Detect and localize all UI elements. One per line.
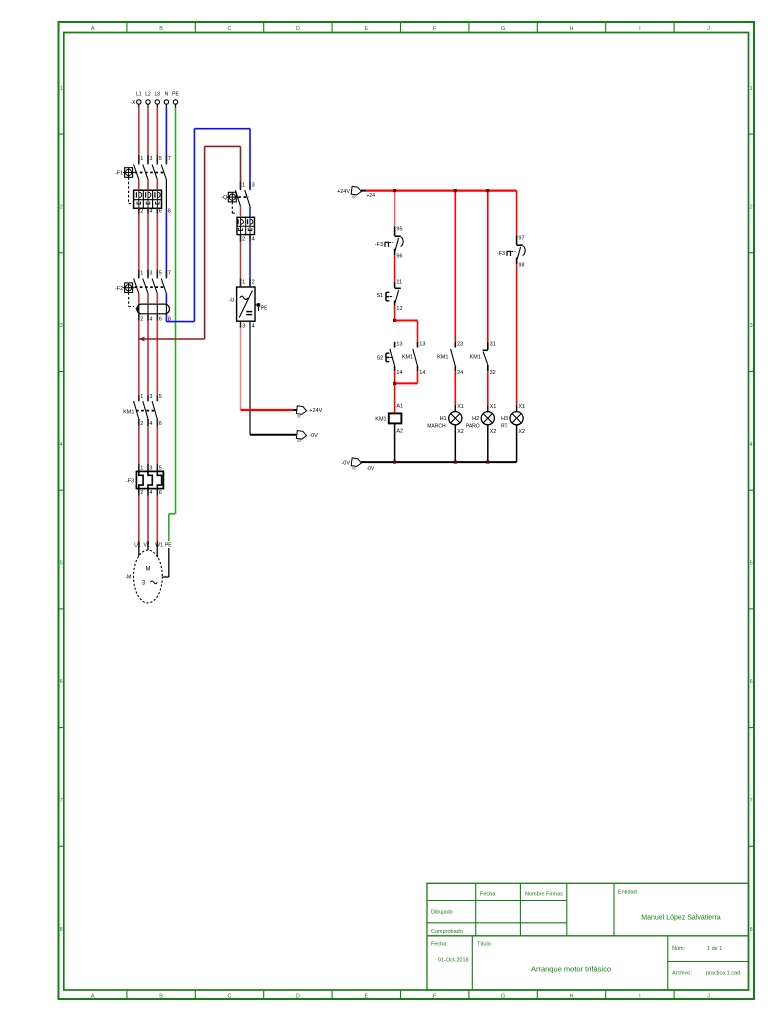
svg-text:13: 13 [419,342,425,348]
svg-text:01-Oct-2018: 01-Oct-2018 [438,958,469,964]
svg-text:Manuel López Salvatierra: Manuel López Salvatierra [641,915,720,922]
svg-text:G: G [501,26,505,32]
svg-text:1: 1 [242,182,245,188]
svg-text:H2: H2 [472,416,479,422]
svg-text:Archivo:: Archivo: [672,971,692,977]
svg-text:X1: X1 [457,404,464,410]
svg-text:Dibujado: Dibujado [431,910,453,916]
svg-text:-U: -U [229,298,235,304]
svg-text:KM1: KM1 [437,354,448,360]
svg-text:KM1: KM1 [402,354,413,360]
svg-text:4: 4 [149,490,152,496]
svg-text:2: 2 [140,208,143,214]
svg-text:U1: U1 [134,543,141,549]
svg-text:3: 3 [149,156,152,162]
svg-text:12: 12 [396,306,402,312]
svg-text:5: 5 [159,156,162,162]
svg-text:98: 98 [518,263,524,269]
svg-text:3: 3 [60,323,63,329]
svg-text:X2: X2 [490,429,497,435]
svg-text:-Q: -Q [221,195,228,201]
svg-text:A: A [91,26,95,32]
svg-text:32: 32 [490,370,496,376]
svg-text:4: 4 [252,237,255,243]
svg-text:-F2: -F2 [115,286,123,292]
svg-text:5: 5 [159,465,162,471]
svg-text:B: B [159,26,163,32]
svg-text:6: 6 [159,316,162,322]
svg-text:-M: -M [125,575,132,581]
svg-text:H: H [570,993,574,999]
svg-text:11: 11 [396,280,402,286]
svg-text:V1: V1 [143,543,149,549]
svg-text:7: 7 [60,798,63,804]
svg-text:H3: H3 [501,416,508,422]
svg-text:N: N [165,92,169,98]
svg-text:7: 7 [168,271,171,277]
svg-text:H: H [570,26,574,32]
svg-text:S2: S2 [376,356,383,362]
svg-text:95: 95 [396,227,402,233]
svg-text:2: 2 [252,279,255,285]
svg-text:3: 3 [242,323,245,329]
svg-text:KM1: KM1 [123,410,134,416]
svg-text:7: 7 [168,156,171,162]
svg-text:1 de 1: 1 de 1 [707,946,722,952]
svg-text:1: 1 [140,394,143,400]
svg-text:31: 31 [490,342,496,348]
svg-text:1: 1 [60,86,63,92]
svg-text:D: D [296,993,300,999]
svg-text:-0V: -0V [367,466,375,472]
svg-text:6: 6 [159,208,162,214]
svg-text:4: 4 [149,316,152,322]
svg-text:3: 3 [149,394,152,400]
svg-text:4: 4 [60,442,63,448]
svg-text:L2: L2 [145,92,151,98]
svg-text:-F3: -F3 [126,479,134,485]
svg-text:PARO: PARO [466,424,480,430]
svg-text:2: 2 [140,316,143,322]
svg-text:X1: X1 [490,404,497,410]
svg-text:5: 5 [60,561,63,567]
svg-text:E: E [364,26,368,32]
svg-text:1: 1 [140,156,143,162]
svg-text:2: 2 [750,205,753,211]
svg-text:8: 8 [60,927,63,933]
svg-text:02: 02 [297,414,301,418]
svg-text:7: 7 [750,798,753,804]
svg-text:3: 3 [149,465,152,471]
svg-text:6: 6 [159,421,162,427]
svg-text:H1: H1 [440,416,447,422]
svg-text:6: 6 [60,679,63,685]
svg-text:2: 2 [140,490,143,496]
svg-text:J: J [707,26,710,32]
svg-text:6: 6 [750,679,753,685]
svg-text:S1: S1 [376,293,383,299]
svg-text:A2: A2 [396,429,403,435]
svg-text:-0V: -0V [341,461,350,467]
svg-text:Comprobado: Comprobado [431,929,463,935]
svg-text:L3: L3 [155,92,161,98]
svg-text:4: 4 [149,208,152,214]
svg-text:+24: +24 [367,193,376,199]
svg-text:1: 1 [242,279,245,285]
svg-text:5: 5 [159,271,162,277]
svg-text:24: 24 [457,370,463,376]
svg-text:-0V: -0V [309,433,318,439]
svg-text:3: 3 [149,271,152,277]
svg-text:-F3: -F3 [497,251,505,257]
svg-text:96: 96 [396,254,402,260]
svg-text:A1: A1 [396,403,403,409]
svg-text:A: A [91,993,95,999]
svg-text:C: C [228,26,232,32]
svg-text:5: 5 [750,561,753,567]
svg-text:-F3: -F3 [375,242,383,248]
svg-text:02: 02 [297,439,301,443]
svg-text:Núm:: Núm: [672,946,686,952]
svg-text:X1: X1 [518,404,525,410]
svg-text:3: 3 [252,182,255,188]
svg-text:1: 1 [140,271,143,277]
svg-text:Nombre Firmas: Nombre Firmas [525,892,563,898]
svg-text:4: 4 [252,323,255,329]
svg-text:J: J [707,993,710,999]
svg-text:8: 8 [750,927,753,933]
svg-text:02: 02 [352,195,356,199]
svg-text:D: D [296,26,300,32]
svg-text:MARCH: MARCH [427,424,446,430]
svg-text:PE: PE [172,92,179,98]
svg-text:L1: L1 [136,92,142,98]
svg-text:C: C [228,993,232,999]
svg-text:1: 1 [140,465,143,471]
svg-text:+24V: +24V [309,408,322,414]
svg-text:8: 8 [168,208,171,214]
svg-text:X2: X2 [457,429,464,435]
svg-text:Entidad: Entidad [618,890,637,896]
svg-text:Título: Título [477,942,491,948]
svg-text:14: 14 [396,370,402,376]
svg-text:6: 6 [159,490,162,496]
svg-text:-X: -X [130,100,136,106]
svg-text:Arranque motor trifásico: Arranque motor trifásico [531,965,611,974]
svg-text:Fecha: Fecha [480,892,496,898]
svg-text:4: 4 [149,421,152,427]
svg-text:3: 3 [750,323,753,329]
svg-text:-F1: -F1 [115,171,123,177]
svg-text:KM1: KM1 [470,354,481,360]
svg-text:RT: RT [501,424,508,430]
svg-text:KM1: KM1 [375,417,386,423]
svg-text:5: 5 [159,394,162,400]
svg-text:W1: W1 [155,543,163,549]
svg-text:1: 1 [750,86,753,92]
svg-text:4: 4 [750,442,753,448]
svg-text:13: 13 [396,342,402,348]
svg-text:Fecha:: Fecha: [431,942,448,948]
svg-text:X2: X2 [518,429,525,435]
svg-text:M: M [146,567,151,573]
svg-text:2: 2 [242,237,245,243]
svg-text:2: 2 [60,205,63,211]
svg-text:23: 23 [457,342,463,348]
svg-text:PE: PE [261,306,268,312]
svg-text:97: 97 [518,236,524,242]
svg-text:14: 14 [419,370,425,376]
svg-text:practica 1.cad: practica 1.cad [706,971,740,977]
svg-text:PE: PE [165,543,172,549]
svg-text:E: E [364,993,368,999]
svg-text:G: G [501,993,505,999]
svg-text:2: 2 [140,421,143,427]
svg-text:B: B [159,993,163,999]
svg-text:02: 02 [352,467,356,471]
svg-text:+24V: +24V [337,189,350,195]
